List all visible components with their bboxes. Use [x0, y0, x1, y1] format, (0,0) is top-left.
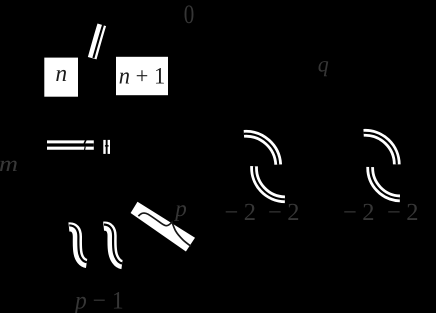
svg-text:p: p [173, 196, 187, 221]
svg-text:0: 0 [184, 0, 195, 29]
wire: left S twist strand [69, 225, 87, 263]
svg-text:n: n [55, 61, 67, 87]
brace for p strands [138, 213, 191, 246]
wire: top diagonal band stub (over-strand between boxes) [92, 25, 103, 58]
wire: horizontal double band (m curve) [47, 140, 94, 150]
link group 2: upper arc (unknot with -2 framing) [364, 133, 397, 165]
wire: short vertical band stub (crossing over m curve) [103, 140, 110, 154]
svg-text:q: q [318, 52, 329, 77]
svg-text:p − 1: p − 1 [73, 288, 123, 313]
link group 1: lower arc (unknot with -2 framing) [254, 166, 285, 199]
box n (surgery coefficient box) [44, 58, 78, 97]
link group 1: upper arc (unknot with -2 framing) [244, 134, 278, 165]
crossing nick on horizontal band [84, 140, 86, 144]
wire: right S twist strand [104, 225, 123, 265]
box n+1 (surgery coefficient box) [116, 57, 168, 95]
band: diagonal white band with brace (p parallel strands) [131, 202, 195, 252]
svg-text:n + 1: n + 1 [119, 64, 166, 90]
link group 2: lower arc (unknot with -2 framing) [370, 167, 400, 198]
svg-text:m: m [0, 151, 18, 176]
